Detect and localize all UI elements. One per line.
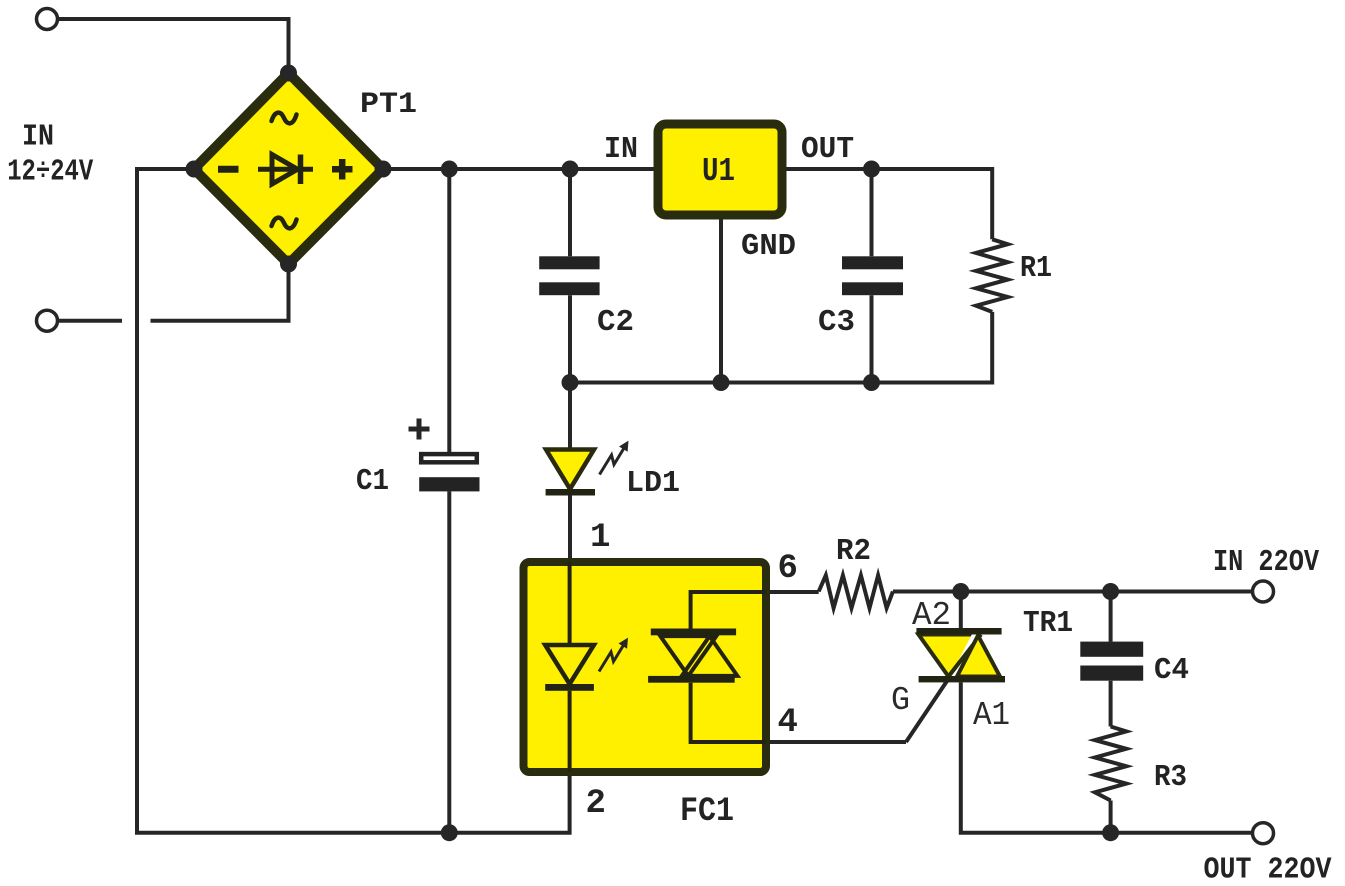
svg-text:6: 6 (778, 550, 798, 588)
svg-text:IN: IN (22, 120, 54, 155)
svg-text:12÷24V: 12÷24V (7, 155, 93, 190)
svg-text:IN: IN (604, 132, 638, 167)
svg-text:OUT 22OV: OUT 22OV (1204, 853, 1332, 886)
svg-text:GND: GND (741, 229, 796, 264)
svg-text:R2: R2 (836, 534, 871, 569)
svg-text:FC1: FC1 (680, 793, 734, 831)
svg-text:4: 4 (778, 704, 798, 742)
svg-text:C1: C1 (356, 464, 389, 499)
svg-text:LD1: LD1 (626, 466, 680, 501)
svg-text:G: G (891, 682, 910, 719)
svg-text:A2: A2 (912, 597, 951, 634)
svg-text:U1: U1 (702, 153, 735, 190)
svg-text:R3: R3 (1154, 760, 1187, 795)
svg-text:R1: R1 (1020, 251, 1052, 286)
svg-text:C4: C4 (1154, 653, 1189, 688)
svg-text:PT1: PT1 (360, 88, 417, 122)
svg-text:A1: A1 (973, 697, 1010, 734)
svg-text:C3: C3 (818, 305, 855, 340)
svg-text:IN 22OV: IN 22OV (1213, 545, 1319, 580)
svg-text:TR1: TR1 (1023, 606, 1073, 641)
svg-text:C2: C2 (597, 305, 634, 340)
svg-text:2: 2 (586, 785, 606, 823)
svg-text:1: 1 (590, 519, 610, 557)
svg-text:OUT: OUT (801, 132, 854, 167)
